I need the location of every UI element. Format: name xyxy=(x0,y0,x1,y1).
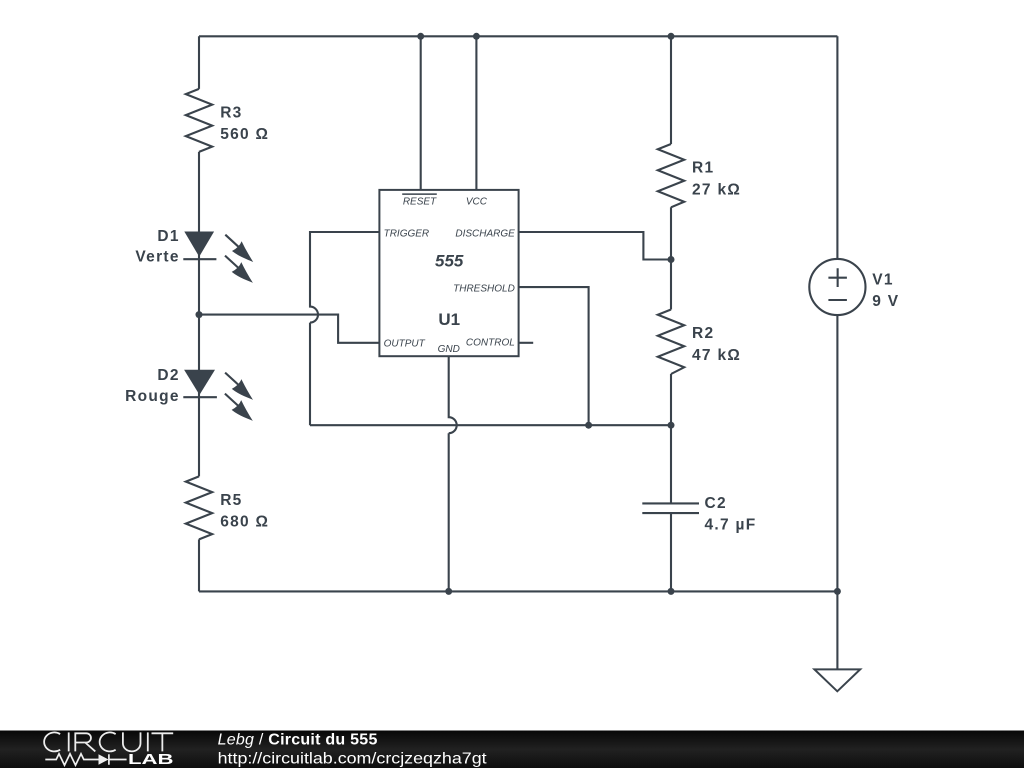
node V1 bottom xyxy=(834,588,841,595)
wire V1 branch xyxy=(836,36,838,669)
wire top rail xyxy=(199,35,837,37)
node top R1 xyxy=(668,33,675,40)
capacitor C2 xyxy=(642,495,756,534)
svg-text:R3: R3 xyxy=(220,104,242,121)
footer bar xyxy=(0,731,1024,768)
svg-text:CONTROL: CONTROL xyxy=(466,337,515,348)
svg-text:27 kΩ: 27 kΩ xyxy=(692,181,741,198)
resistor R2 xyxy=(658,310,741,375)
CircuitLab logo zigzag diode LAB xyxy=(45,751,173,768)
svg-text:DISCHARGE: DISCHARGE xyxy=(455,228,515,239)
wire THRESHOLD to inner bottom xyxy=(519,287,589,425)
wire inner bottom xyxy=(310,424,671,426)
node LED junction xyxy=(196,311,203,318)
CircuitLab logo CIRCUIT xyxy=(44,732,173,751)
svg-text:U1: U1 xyxy=(438,310,460,329)
node GND bottom xyxy=(445,588,452,595)
wire VCC branch xyxy=(475,36,477,190)
IC U1 555 timer xyxy=(379,190,518,356)
node R1-R2 discharge xyxy=(668,256,675,263)
node top VCC xyxy=(473,33,480,40)
svg-text:http://circuitlab.com/crcjzeqz: http://circuitlab.com/crcjzeqzha7gt xyxy=(218,750,488,767)
svg-text:THRESHOLD: THRESHOLD xyxy=(453,283,515,294)
svg-text:Rouge: Rouge xyxy=(125,388,180,405)
svg-text:C2: C2 xyxy=(705,495,727,512)
wire DISCHARGE to R1-R2 node xyxy=(519,232,671,260)
wire GND with hop xyxy=(449,356,457,591)
node R2-C2 xyxy=(668,422,675,429)
svg-text:680 Ω: 680 Ω xyxy=(220,514,269,531)
svg-text:R2: R2 xyxy=(692,325,714,342)
svg-text:TRIGGER: TRIGGER xyxy=(384,228,430,239)
svg-text:560 Ω: 560 Ω xyxy=(220,126,269,143)
wire CONTROL stub xyxy=(519,342,534,344)
svg-text:R5: R5 xyxy=(220,492,242,509)
LED D1 xyxy=(135,228,253,283)
node C2 bottom xyxy=(668,588,675,595)
wire bottom rail xyxy=(199,590,837,592)
resistor R3 xyxy=(186,89,270,152)
wire TRIGGER with hop xyxy=(310,232,379,425)
wire R1 R2 C2 branch xyxy=(670,36,672,591)
svg-text:4.7 µF: 4.7 µF xyxy=(705,516,757,533)
svg-text:Verte: Verte xyxy=(135,248,179,265)
svg-text:47 kΩ: 47 kΩ xyxy=(692,347,741,364)
svg-text:VCC: VCC xyxy=(466,197,488,208)
svg-text:OUTPUT: OUTPUT xyxy=(384,338,426,349)
wire left rail vertical xyxy=(198,36,200,591)
wire RESET branch xyxy=(420,36,422,190)
node threshold bottom xyxy=(585,422,592,429)
svg-text:D1: D1 xyxy=(157,228,179,245)
voltage source V1 xyxy=(809,259,899,315)
resistor R1 xyxy=(658,144,741,207)
svg-text:9 V: 9 V xyxy=(872,293,899,310)
svg-text:555: 555 xyxy=(435,252,464,271)
svg-text:D2: D2 xyxy=(157,367,179,384)
svg-text:Lebg / Circuit du 555: Lebg / Circuit du 555 xyxy=(218,732,378,749)
LED D2 xyxy=(125,367,253,421)
svg-text:GND: GND xyxy=(438,344,460,355)
svg-text:V1: V1 xyxy=(872,272,894,289)
svg-text:RESET: RESET xyxy=(403,197,437,208)
node top RESET xyxy=(417,33,424,40)
resistor R5 xyxy=(186,476,270,539)
ground xyxy=(814,669,860,691)
wire OUTPUT to LED node xyxy=(199,315,379,343)
svg-text:R1: R1 xyxy=(692,160,714,177)
svg-text:LAB: LAB xyxy=(128,751,174,768)
